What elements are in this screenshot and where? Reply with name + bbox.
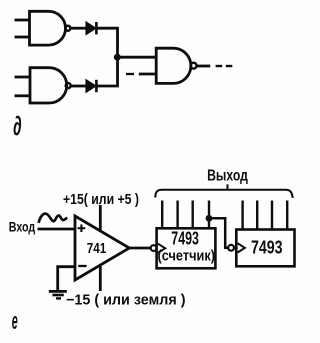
- gate B input stub 2: [15, 94, 31, 97]
- wire D2 to corner: [96, 85, 118, 88]
- NAND gate B (bottom-left): [30, 68, 67, 103]
- junction node dot: [114, 54, 121, 61]
- gate C output bubble: [191, 63, 197, 69]
- gate B input stub 1: [15, 76, 31, 79]
- wire junction to gate C input 1: [118, 56, 157, 59]
- output brace: [155, 184, 293, 198]
- -15 power line: [99, 265, 102, 292]
- counter box U3 7493: [236, 230, 294, 267]
- wire D1 to corner: [96, 27, 118, 30]
- wire gate A to diode D1: [71, 27, 87, 30]
- box2 input bubble: [228, 245, 234, 251]
- gate A input stub 1: [15, 19, 30, 22]
- junction dot on pin 4: [206, 215, 213, 222]
- box1 pin 1: [161, 201, 163, 229]
- ground symbol: [49, 291, 67, 298]
- gate A input stub 2: [15, 36, 30, 39]
- svg-text:Выход: Выход: [207, 167, 248, 184]
- box2 pin 3: [271, 201, 273, 230]
- +15 power line: [99, 205, 102, 232]
- vertical bus wire: [116, 28, 119, 86]
- svg-text:∂: ∂: [13, 111, 22, 141]
- svg-text:−15 ( или земля ): −15 ( или земля ): [66, 293, 186, 309]
- box2 clock triangle: [238, 243, 245, 252]
- svg-text:(счетчик): (счетчик): [158, 248, 216, 264]
- dashed input stub to gate C input 2: [126, 73, 156, 75]
- box1 pin 2: [176, 201, 178, 229]
- box1 pin 3: [191, 201, 193, 229]
- box2 pin 2: [256, 201, 258, 230]
- gate A output bubble: [65, 26, 70, 31]
- input wire Vhod: [38, 228, 76, 231]
- input sine squiggle: [39, 214, 68, 223]
- svg-text:е: е: [12, 308, 18, 335]
- svg-text:7493: 7493: [251, 237, 283, 258]
- gate B output bubble: [66, 83, 71, 88]
- diode D2: [86, 80, 96, 92]
- wire pin4 to box2 clock: [209, 218, 228, 248]
- wire gate B to diode D2: [71, 85, 86, 88]
- minus input wire to ground: [58, 267, 75, 291]
- svg-text:7493: 7493: [171, 229, 199, 249]
- box2 pin 1: [241, 201, 243, 230]
- svg-text:Вход: Вход: [9, 220, 36, 235]
- box1 pin 4: [208, 201, 210, 229]
- gate C output wire with dashes: [197, 65, 233, 68]
- NAND gate A (top-left): [30, 11, 66, 45]
- counter box U2 7493: [157, 228, 216, 268]
- svg-text:741: 741: [87, 241, 107, 257]
- box1 input bubble: [151, 245, 157, 251]
- svg-text:+15( или +5 ): +15( или +5 ): [63, 191, 139, 208]
- plus input marker: [78, 224, 86, 232]
- diode D1: [86, 22, 96, 34]
- minus input marker: [78, 265, 86, 267]
- box2 pin 4: [286, 201, 288, 230]
- box1 clock triangle: [158, 244, 165, 253]
- op-amp U1 triangle: [75, 216, 129, 280]
- NAND gate C (right): [156, 48, 191, 83]
- op-amp output wire: [129, 247, 151, 250]
